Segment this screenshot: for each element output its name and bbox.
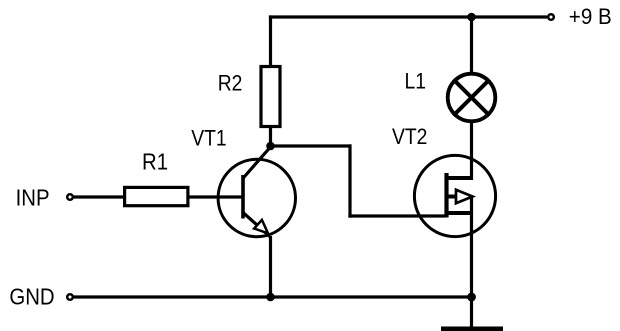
VT1 base bar — [241, 175, 245, 219]
VT1 collector lead — [243, 146, 271, 179]
wire lamp top — [470, 17, 473, 73]
svg-text:INP: INP — [16, 184, 50, 211]
wire INP to R1 — [74, 195, 125, 198]
VT1 emitter arrow — [254, 220, 268, 233]
VT2 body arrow — [456, 190, 473, 203]
node top rail junction — [467, 13, 476, 22]
VT2 body stub — [447, 195, 457, 199]
svg-text:R2: R2 — [218, 71, 243, 96]
VT2 gate bar — [444, 173, 448, 218]
svg-text:L1: L1 — [405, 69, 426, 94]
svg-text:R1: R1 — [142, 148, 168, 175]
lamp L1 cross stroke 2 — [453, 79, 489, 115]
wire gate vertical — [348, 144, 351, 217]
transistor VT2 circle — [414, 155, 495, 236]
terminal INP — [67, 194, 73, 200]
wire bottom rail — [74, 295, 472, 298]
VT2 drain stub — [447, 176, 472, 180]
VT2 source stub — [447, 211, 472, 215]
svg-text:VT2: VT2 — [392, 125, 427, 150]
transistor VT1 circle — [218, 159, 295, 236]
wire R2 bottom — [269, 126, 272, 148]
node source junction — [467, 293, 476, 302]
svg-text:GND: GND — [9, 283, 54, 310]
lamp L1 circle — [448, 74, 496, 122]
svg-text:+9 В: +9 В — [569, 4, 612, 29]
node collector junction — [266, 142, 275, 151]
wire to ground — [470, 297, 473, 327]
wire VT2 source down — [470, 196, 473, 297]
ground — [441, 327, 503, 331]
wire R2 top — [269, 15, 272, 66]
node emitter junction — [266, 293, 275, 302]
wire top rail +9V — [269, 15, 547, 18]
wire R1 to VT1 base — [190, 195, 244, 198]
wire gate horizontal into VT2 — [348, 214, 445, 217]
terminal +9V — [548, 14, 554, 20]
wire lamp to VT2 drain — [470, 122, 473, 180]
terminal GND — [67, 294, 73, 300]
VT1 emitter lead — [243, 212, 270, 237]
wire VT1 emitter down — [269, 236, 272, 297]
resistor R1 — [125, 187, 188, 205]
svg-text:VT1: VT1 — [191, 126, 226, 151]
wire junction to gate: horizontal — [271, 144, 352, 147]
lamp L1 cross stroke 1 — [453, 79, 489, 115]
resistor R2 — [261, 67, 280, 127]
